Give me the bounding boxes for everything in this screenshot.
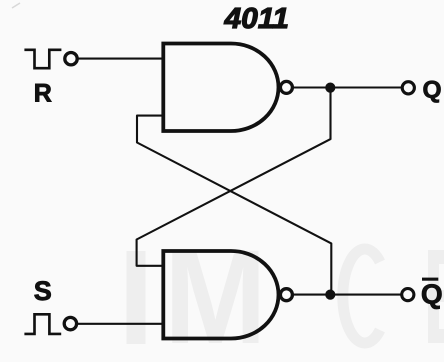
NAND gate U1 body [163, 44, 278, 132]
smudge top-left [12, 3, 20, 8]
svg-text:S: S [34, 276, 52, 306]
svg-text:Q: Q [421, 279, 443, 310]
pulse symbol R input (negative pulse) [24, 50, 61, 68]
wire cross-couple A: gate1 lower input to Q-bar node [137, 116, 331, 295]
wire gate1 output to Q terminal [294, 86, 403, 88]
terminal Q [402, 82, 414, 94]
svg-text:M: M [164, 222, 267, 362]
terminal S [64, 317, 76, 329]
wire R input [77, 58, 164, 60]
terminal Q-bar [402, 289, 414, 301]
pulse symbol S input (positive pulse) [24, 314, 61, 334]
junction node Q-bar [325, 290, 335, 300]
bubble gate U2 output [280, 289, 292, 301]
wire S input [77, 323, 165, 325]
NAND gate U2 body [163, 251, 278, 339]
terminal R [65, 53, 77, 65]
watermark [127, 222, 444, 362]
svg-text:Q: Q [423, 77, 442, 104]
wire gate2 output to Q-bar terminal [294, 294, 402, 296]
bubble gate U1 output [280, 81, 292, 93]
svg-text:R: R [34, 80, 52, 108]
wire cross-couple B: Q node to gate2 upper input [137, 88, 331, 266]
svg-text:4011: 4011 [223, 3, 289, 35]
junction node Q [325, 83, 335, 93]
